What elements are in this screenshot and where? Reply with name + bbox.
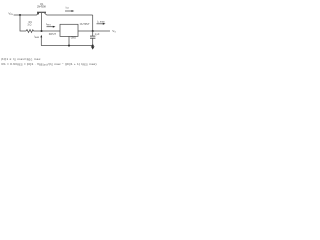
svg-text:3 Ω: 3 Ω	[27, 23, 31, 26]
svg-text:IQ1: IQ1	[66, 6, 69, 9]
annotation arrow IO max	[97, 23, 104, 25]
wire input top rail left	[14, 14, 37, 16]
node junction cap-ground dot	[92, 45, 94, 47]
wire output rail	[78, 30, 110, 32]
node VIN label	[8, 12, 13, 17]
wire R1 to regulator input	[34, 30, 61, 32]
label IBIAS current	[34, 35, 40, 38]
label INPUT pin	[49, 33, 57, 36]
svg-text:2N4398: 2N4398	[37, 6, 46, 9]
wire top rail right	[47, 14, 93, 16]
annotation arrow IBIAS up	[40, 37, 42, 46]
capacitor C1 bottom lead	[92, 38, 94, 45]
capacitor C1 plates	[90, 35, 95, 37]
node junction output dot	[92, 30, 94, 32]
wire collector down to output	[92, 15, 94, 31]
node junction base dot	[40, 30, 42, 32]
label Q1 designator	[37, 3, 46, 9]
svg-text:1 μF: 1 μF	[95, 33, 100, 36]
regulator U1 box	[60, 24, 78, 36]
svg-text:INPUT: INPUT	[49, 33, 57, 36]
resistor R1	[26, 30, 34, 33]
label IO max current	[97, 20, 105, 23]
svg-text:GND: GND	[71, 37, 77, 40]
wire Q1 base lead down	[41, 13, 43, 31]
wire ground rail	[41, 45, 92, 47]
svg-text:IBIAS: IBIAS	[34, 35, 40, 38]
label IREG current	[46, 23, 51, 26]
transistor Q1 emitter lead with arrow	[37, 13, 39, 15]
wire ground pin of regulator	[68, 36, 70, 45]
svg-text:IO max: IO max	[97, 20, 105, 23]
svg-text:IREG: IREG	[46, 23, 51, 26]
capacitor C1 top lead	[92, 31, 94, 36]
label OUTPUT pin	[80, 23, 90, 26]
label R1 value	[27, 21, 32, 27]
transistor Q1 base bar	[37, 11, 46, 13]
annotation arrow IREG	[47, 26, 54, 28]
svg-text:OUTPUT: OUTPUT	[80, 23, 90, 26]
transistor Q1 collector lead	[44, 13, 46, 15]
label IQ1 current	[66, 6, 69, 9]
node VO label	[112, 29, 116, 34]
svg-text:βQ1 ≥ IO max/IREG max: βQ1 ≥ IO max/IREG max	[2, 57, 41, 62]
label GND pin	[71, 37, 77, 40]
node junction VIN dot	[19, 14, 21, 16]
ground symbol	[91, 46, 95, 49]
node junction gnd pin dot	[68, 45, 70, 47]
annotation arrow IQ1	[65, 10, 72, 12]
wire VIN down to R1	[20, 15, 26, 31]
label C1 value	[95, 33, 100, 36]
